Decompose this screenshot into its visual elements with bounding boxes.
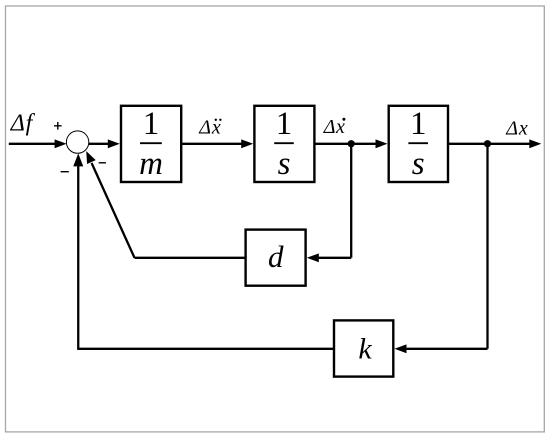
wire: into spring block k xyxy=(404,348,488,350)
wire: output node down to spring level xyxy=(486,144,488,349)
svg-text:Δx: Δx xyxy=(505,118,528,140)
svg-text:1: 1 xyxy=(276,106,293,142)
summing junction xyxy=(66,131,88,153)
minus sign (damper input) xyxy=(99,162,106,164)
node junction dot after second integrator xyxy=(484,140,491,147)
wire: k output left xyxy=(78,348,334,350)
arrowhead into 1/m xyxy=(108,139,120,148)
arrowhead output xyxy=(529,139,541,148)
arrowhead diagonal into summing junction xyxy=(86,151,96,164)
arrowhead into first integrator xyxy=(241,139,253,148)
svg-text:s: s xyxy=(278,146,291,182)
svg-text:m: m xyxy=(139,146,163,182)
svg-text:1: 1 xyxy=(410,106,427,142)
wire: summing junction to 1/m xyxy=(89,143,111,145)
wire: first integrator to second integrator xyxy=(314,143,378,145)
block d (damper) xyxy=(246,230,306,286)
minus sign (lower input) xyxy=(61,171,69,173)
arrowhead into second integrator xyxy=(376,139,388,148)
svg-text:1: 1 xyxy=(143,106,160,142)
wire: input Δf horizontal xyxy=(9,143,57,145)
wire: diagonal up to summing junction xyxy=(92,163,135,258)
arrowhead into d xyxy=(307,253,319,262)
wire: second integrator to output xyxy=(448,143,531,145)
svg-text:Δf: Δf xyxy=(10,111,36,137)
wire: into damper block d xyxy=(316,257,351,259)
arrowhead: input into summing junction xyxy=(55,139,67,148)
wire: d output left xyxy=(135,257,246,259)
wire: node Δẋ down to damper level xyxy=(350,144,352,258)
svg-text:Δx: Δx xyxy=(198,117,221,139)
node label Δẍ xyxy=(198,117,221,139)
plus sign xyxy=(54,122,62,130)
arrowhead into k xyxy=(395,344,407,353)
svg-text:k: k xyxy=(358,333,372,366)
arrowhead up into summing junction xyxy=(73,153,83,166)
svg-text:s: s xyxy=(412,146,425,182)
wire: up to summing junction bottom xyxy=(77,165,79,350)
node junction dot after first integrator xyxy=(348,140,355,147)
block k (spring) xyxy=(334,320,393,376)
node label Δẋ xyxy=(323,116,346,138)
wire: 1/m to first integrator xyxy=(181,143,244,145)
svg-text:d: d xyxy=(268,239,284,274)
svg-text:Δx: Δx xyxy=(323,116,346,138)
block 1/s first integrator xyxy=(254,106,314,182)
block 1/s second integrator xyxy=(389,106,448,182)
block 1/m xyxy=(121,106,181,182)
